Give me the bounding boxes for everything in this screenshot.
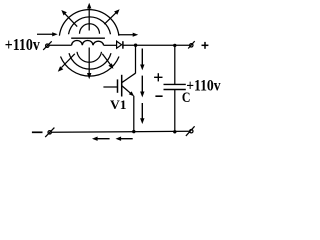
terminal top-right xyxy=(188,41,195,48)
wire coil to diode xyxy=(104,44,117,46)
svg-text:V1: V1 xyxy=(110,98,127,112)
wire diode to right terminal xyxy=(123,44,189,46)
wire capacitor top lead xyxy=(174,45,176,84)
wire capacitor bottom lead xyxy=(174,90,176,132)
field arrow down xyxy=(87,48,91,80)
field arc upper inner xyxy=(80,24,100,34)
label + top-right xyxy=(202,42,209,49)
junction dot top collector xyxy=(134,44,137,47)
current arrow left 1 xyxy=(92,137,110,141)
svg-text:+110v: +110v xyxy=(186,78,220,95)
inductor core bar xyxy=(71,37,105,39)
junction dot bottom capacitor xyxy=(173,130,176,133)
wire emitter drop xyxy=(133,96,135,132)
current arrow down 3 xyxy=(140,103,144,124)
junction dot bottom emitter xyxy=(132,130,135,133)
current arrow left 2 xyxy=(116,137,133,141)
field arrow right (right side) xyxy=(118,33,138,37)
field arrow up-left xyxy=(61,10,77,27)
wire bottom xyxy=(52,130,190,133)
field arc lower inner xyxy=(77,52,102,62)
label + capacitor xyxy=(154,73,162,81)
label - bottom-left xyxy=(32,131,43,133)
terminal top-left xyxy=(43,41,52,50)
junction dot top capacitor xyxy=(173,44,176,47)
capacitor C xyxy=(164,84,186,89)
field arc lower middle xyxy=(69,53,111,69)
transistor V1 xyxy=(103,73,135,96)
inductor L winding xyxy=(72,40,104,45)
field arrow up-right xyxy=(104,9,119,24)
field arc upper outer xyxy=(59,10,119,36)
field arrow up xyxy=(87,3,91,31)
field arrow down-left xyxy=(58,54,75,72)
svg-text:+110v: +110v xyxy=(5,35,40,54)
field arrow right (left side) xyxy=(37,32,58,36)
field arrow down-right xyxy=(102,54,113,69)
wire collector drop xyxy=(135,45,137,73)
wire top-left xyxy=(50,44,72,46)
current arrow down 1 xyxy=(140,49,144,71)
label - capacitor xyxy=(155,95,162,97)
field arc upper middle xyxy=(69,17,111,34)
current arrow down 2 xyxy=(140,76,144,98)
field arc lower outer xyxy=(61,57,120,77)
diode VD xyxy=(117,41,123,49)
terminal bottom-left xyxy=(45,128,54,138)
terminal bottom-right xyxy=(186,126,195,136)
